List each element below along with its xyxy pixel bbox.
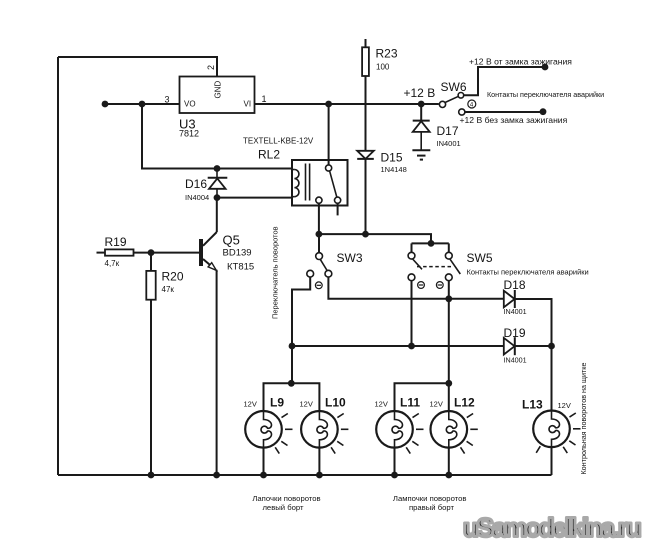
svg-text:D19: D19 bbox=[504, 326, 526, 340]
junction node A left bbox=[316, 231, 323, 238]
wire SW5 right contact down to lamp L12 bbox=[448, 281, 450, 411]
svg-text:КТ815: КТ815 bbox=[227, 262, 254, 273]
diode D19 IN4001 bbox=[504, 326, 527, 365]
svg-text:левый борт: левый борт bbox=[262, 503, 304, 512]
watermark uSamodelkina.ru bbox=[463, 513, 641, 543]
junction rail to relay common bbox=[325, 101, 332, 108]
svg-text:BD139: BD139 bbox=[223, 248, 252, 259]
label rotated dashboard indicator bbox=[579, 363, 588, 475]
switch SW5 bbox=[408, 243, 589, 288]
svg-text:Лампочки поворотов: Лампочки поворотов bbox=[393, 494, 467, 503]
svg-text:L10: L10 bbox=[325, 396, 346, 410]
svg-text:4,7к: 4,7к bbox=[105, 259, 120, 268]
svg-text:Переключатель поворотов: Переключатель поворотов bbox=[271, 226, 280, 319]
svg-text:Контакты переключателя аварийк: Контакты переключателя аварийки bbox=[467, 268, 589, 277]
svg-text:IN4001: IN4001 bbox=[437, 139, 461, 148]
svg-text:47к: 47к bbox=[162, 285, 175, 294]
wire Q5 emitter to ground rail bbox=[216, 270, 218, 475]
node ignition feed dot bbox=[542, 64, 549, 71]
svg-text:Лапочки поворотов: Лапочки поворотов bbox=[252, 494, 320, 503]
svg-text:uSamodelkina.ru: uSamodelkina.ru bbox=[463, 513, 641, 543]
svg-text:2: 2 bbox=[206, 65, 216, 70]
svg-text:Контрольная поворотов на щитке: Контрольная поворотов на щитке bbox=[579, 363, 588, 475]
resistor R20 47k bbox=[146, 253, 184, 300]
wire U3 VO pin3 bbox=[105, 103, 180, 105]
wire D16 junction to Q5 collector bbox=[216, 198, 218, 232]
wire base node to Q5 bbox=[151, 252, 199, 254]
svg-text:Q5: Q5 bbox=[223, 232, 240, 247]
wire D19 line bbox=[292, 345, 552, 347]
svg-text:D17: D17 bbox=[437, 124, 459, 138]
switch SW3 bbox=[307, 234, 363, 289]
svg-text:12V: 12V bbox=[375, 400, 388, 409]
wire +12V rail down to relay common contact bbox=[328, 104, 330, 165]
wire SW6 upper throw to ignition +12V bbox=[464, 67, 545, 95]
junction L11 L12 bracket feed bbox=[445, 380, 452, 387]
junction emitter to rail bbox=[213, 472, 220, 479]
label rotated turn signal switch bbox=[271, 226, 280, 319]
svg-text:L13: L13 bbox=[522, 398, 543, 412]
label lamps right side caption bbox=[393, 494, 467, 512]
junction coil top and D16 bbox=[214, 165, 221, 172]
transistor Q5 BD139 KT815 bbox=[201, 232, 254, 273]
svg-text:12V: 12V bbox=[244, 400, 257, 409]
svg-text:R20: R20 bbox=[162, 270, 184, 284]
label +12V from ignition bbox=[469, 56, 572, 66]
svg-text:R19: R19 bbox=[105, 235, 127, 249]
svg-text:VI: VI bbox=[244, 100, 252, 109]
lamp L12 12V bbox=[430, 396, 478, 454]
wire U3 VI pin1 +12V rail bbox=[255, 103, 439, 105]
relay RL2 TEXTELL-KBE-12V bbox=[243, 137, 348, 216]
ground bbox=[412, 150, 430, 159]
label hazard switch contacts upper bbox=[487, 90, 604, 99]
svg-text:D15: D15 bbox=[381, 151, 403, 165]
svg-text:SW5: SW5 bbox=[467, 251, 493, 265]
svg-text:12V: 12V bbox=[558, 401, 571, 410]
junction SW5 right vertical crossing D18 line bbox=[445, 295, 452, 302]
wire L13 to rail corner bbox=[551, 447, 553, 475]
wire L11 to rail bbox=[394, 448, 396, 475]
diode D18 IN4001 bbox=[504, 278, 527, 316]
junction L9 rail bbox=[260, 472, 267, 479]
wire relay NO contact down to node A bbox=[318, 203, 320, 234]
svg-text:12V: 12V bbox=[300, 400, 313, 409]
svg-text:VO: VO bbox=[184, 100, 196, 109]
junction D16 bottom bbox=[214, 194, 221, 201]
svg-text:IN4004: IN4004 bbox=[185, 193, 209, 202]
regulator U3 7812 bbox=[165, 65, 267, 138]
svg-text:12V: 12V bbox=[430, 400, 443, 409]
svg-text:D18: D18 bbox=[504, 278, 526, 292]
junction L10 rail bbox=[316, 472, 323, 479]
junction R20 to rail bbox=[148, 472, 155, 479]
resistor R19 4.7k bbox=[97, 235, 152, 268]
diode D15 1N4148 bbox=[357, 151, 407, 175]
junction D19 line left tap bbox=[289, 343, 296, 350]
svg-text:+12 В: +12 В bbox=[404, 86, 436, 100]
svg-text:L11: L11 bbox=[400, 396, 420, 410]
label +12V without ignition bbox=[460, 115, 568, 125]
svg-text:L12: L12 bbox=[454, 396, 475, 410]
wire VO branch down to relay coil top bbox=[142, 104, 292, 169]
node VO terminal dot bbox=[102, 101, 109, 108]
junction D18 D19 join bbox=[548, 343, 555, 350]
wire SW5 left contact to D19 line bbox=[411, 281, 413, 347]
svg-text:1: 1 bbox=[262, 94, 267, 104]
wire bottom ground rail bbox=[58, 474, 552, 476]
lamp L11 12V bbox=[375, 396, 424, 454]
wire SW3 right contact to D18 bbox=[328, 277, 503, 299]
wire D15 to node A bbox=[365, 159, 367, 234]
wire U3 GND pin2 up and left to ground rail bbox=[58, 57, 217, 76]
junction node A D15 tap bbox=[362, 231, 369, 238]
wire node A horizontal to SW5 feed bbox=[319, 234, 431, 243]
svg-text:100: 100 bbox=[376, 63, 390, 72]
svg-text:IN4001: IN4001 bbox=[504, 307, 527, 316]
diode D17 IN4001 bbox=[413, 104, 461, 150]
svg-text:TEXTELL-KBE-12V: TEXTELL-KBE-12V bbox=[243, 137, 314, 146]
lamp L9 12V bbox=[244, 396, 293, 454]
wire D18 to L13 vertical bbox=[515, 299, 552, 410]
svg-text:7812: 7812 bbox=[179, 128, 199, 138]
svg-text:IN4001: IN4001 bbox=[504, 356, 527, 365]
svg-text:D16: D16 bbox=[185, 177, 207, 191]
svg-text:1N4148: 1N4148 bbox=[381, 165, 407, 174]
switch SW6 bbox=[404, 80, 476, 115]
svg-text:+12 В от замка зажигания: +12 В от замка зажигания bbox=[469, 56, 572, 66]
junction L11 rail bbox=[391, 472, 398, 479]
wire R23 to D15 crossing rail bbox=[365, 76, 367, 151]
junction base and R20 bbox=[148, 249, 155, 256]
svg-text:SW6: SW6 bbox=[441, 80, 467, 94]
wire lamp L11 bracket bbox=[395, 383, 449, 411]
svg-text:R23: R23 bbox=[376, 47, 398, 61]
svg-text:GND: GND bbox=[214, 81, 223, 99]
lamp L13 12V bbox=[522, 398, 581, 454]
wire L12 to rail bbox=[448, 448, 450, 475]
wire L9 to rail bbox=[263, 448, 265, 475]
label lamps left side caption bbox=[252, 494, 320, 512]
wire SW6 lower contact bbox=[465, 111, 543, 113]
junction L9 L10 bracket feed bbox=[288, 380, 295, 387]
svg-text:L9: L9 bbox=[270, 396, 284, 410]
svg-text:Контакты переключателя аварийк: Контакты переключателя аварийки bbox=[487, 90, 604, 99]
junction SW5 left to D19 line bbox=[408, 343, 415, 350]
junction SW5 feed bbox=[428, 240, 435, 247]
wire L10 to rail bbox=[318, 448, 320, 475]
wire D16 junction to relay coil bottom bbox=[217, 197, 292, 199]
lamp L10 12V bbox=[300, 396, 349, 454]
node battery feed dot bbox=[540, 108, 547, 115]
svg-text:RL2: RL2 bbox=[258, 148, 280, 162]
junction L12 rail bbox=[445, 472, 452, 479]
wire lamp L9 L10 bracket bbox=[264, 383, 320, 411]
wire R20 to ground rail bbox=[150, 300, 152, 475]
wire SW3 left contact to lamp L9 L10 bracket bbox=[292, 277, 310, 383]
svg-text:SW3: SW3 bbox=[337, 251, 363, 265]
junction rail to D17 bbox=[418, 101, 425, 108]
svg-text:+12 В без замка зажигания: +12 В без замка зажигания bbox=[460, 115, 568, 125]
resistor R23 100 bbox=[362, 39, 398, 76]
wire left ground rail vertical bbox=[57, 57, 59, 475]
diode D16 IN4004 bbox=[185, 169, 227, 203]
svg-text:правый борт: правый борт bbox=[409, 503, 455, 512]
junction pin3 branch bbox=[139, 101, 146, 108]
